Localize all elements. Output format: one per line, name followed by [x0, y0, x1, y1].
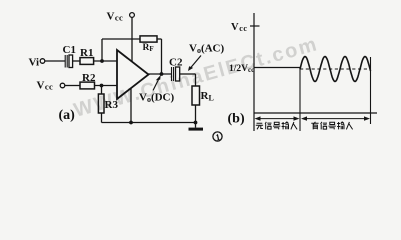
- wire ground rail: [102, 122, 196, 124]
- circled number 1: [213, 132, 222, 143]
- axis vertical: [253, 13, 255, 131]
- axis baseline: [254, 112, 377, 114]
- capacitor C2: [172, 67, 180, 81]
- char shu: [337, 122, 344, 130]
- char ru: [291, 122, 297, 129]
- watermark: [71, 33, 320, 122]
- label signal-input (CJK approx): [311, 122, 352, 130]
- vertical separator 2: [370, 57, 372, 124]
- char hao: [273, 122, 280, 129]
- char xin: [321, 122, 327, 129]
- panel b: [250, 13, 377, 131]
- node R2/R3 junction: [100, 84, 104, 88]
- svg-text:R1: R1: [80, 47, 93, 59]
- dashed mid level: [300, 68, 371, 70]
- svg-text:Vcc: Vcc: [37, 80, 54, 92]
- wire R2 to op-amp input - node: [95, 85, 118, 87]
- op-amp U1: [117, 50, 149, 99]
- resistor RL: [192, 86, 200, 105]
- wire Vcc to op-amp: [131, 17, 133, 61]
- svg-text:(b): (b): [228, 112, 245, 127]
- svg-text:1/2Vcc: 1/2Vcc: [229, 64, 254, 74]
- char hao: [329, 122, 336, 129]
- wire C1 to R1: [73, 60, 80, 62]
- resistor R1: [80, 58, 94, 65]
- capacitor C1: [65, 55, 72, 68]
- node dots: [100, 59, 198, 124]
- vertical separator 1: [299, 68, 301, 131]
- arrowheads spans: [255, 116, 371, 120]
- char shu: [282, 122, 289, 130]
- wire Vcc to R2: [65, 85, 80, 87]
- wire node to R3: [101, 86, 103, 95]
- wire R3 to ground rail: [101, 113, 103, 123]
- ground: [195, 123, 197, 128]
- arrow Vo(DC) pointer: [153, 75, 161, 91]
- wire RL to ground: [195, 105, 197, 123]
- svg-text:Vo(AC): Vo(AC): [189, 43, 225, 56]
- wire RF to output corner: [157, 38, 162, 40]
- node gnd pin junction: [129, 121, 133, 125]
- node output junction: [160, 72, 164, 76]
- char wu: [256, 123, 263, 129]
- wire op-amp gnd pin: [130, 89, 132, 123]
- node R1/feedback junction: [100, 59, 104, 63]
- wire 1/2Vcc flat level: [254, 67, 300, 69]
- svg-text:Vcc: Vcc: [231, 22, 248, 33]
- svg-text:Vo(DC): Vo(DC): [139, 92, 175, 105]
- labels panel a: [29, 11, 255, 127]
- ground bar: [189, 128, 204, 131]
- wire C2 to RL: [180, 73, 196, 75]
- Vcc tick: [250, 25, 260, 27]
- signal sine wave: [300, 57, 371, 82]
- resistor R3: [98, 94, 104, 113]
- svg-text:RF: RF: [143, 43, 154, 53]
- svg-text:R3: R3: [105, 99, 119, 111]
- svg-text:C2: C2: [169, 57, 183, 69]
- char xin: [265, 122, 271, 129]
- svg-text:(a): (a): [59, 108, 76, 123]
- svg-text:Vcc: Vcc: [107, 11, 124, 23]
- wire node to feedback (vertical): [101, 39, 103, 61]
- resistor RF: [140, 36, 157, 42]
- wire op-amp output: [148, 73, 171, 75]
- wire R1 to op-amp input + node: [94, 60, 117, 62]
- label no-signal-input (CJK approx): [256, 122, 297, 130]
- char you: [311, 122, 318, 130]
- arrow span 1: [257, 118, 298, 120]
- arrow span 2: [303, 118, 369, 120]
- wire feedback top horizontal: [102, 38, 140, 40]
- char ru: [346, 122, 352, 129]
- wire Vi to C1: [45, 60, 65, 62]
- svg-text:R2: R2: [82, 72, 96, 84]
- terminal Vcc top: [130, 13, 135, 18]
- terminal Vi: [40, 59, 45, 64]
- node RL ground junction: [194, 121, 198, 125]
- resistor R2: [80, 82, 95, 89]
- svg-text:C1: C1: [63, 44, 76, 56]
- terminal Vcc left: [60, 83, 65, 88]
- arrow Vo(AC) pointer: [188, 56, 201, 72]
- svg-text:Vi: Vi: [29, 57, 40, 69]
